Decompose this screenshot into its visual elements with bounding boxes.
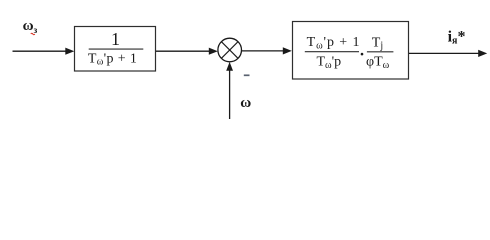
block W2: (Tω'p+1)/(Tω'p) · Tj/(φTω) <box>293 22 409 80</box>
svg-text:Tω'p + 1: Tω'p + 1 <box>307 35 361 51</box>
minus sign at feedback input <box>244 74 250 76</box>
svg-text:iя*: iя* <box>448 29 466 47</box>
block W1: 1/(Tω'p+1) <box>75 27 156 72</box>
svg-text:1: 1 <box>111 29 120 49</box>
svg-text:Tω'p + 1: Tω'p + 1 <box>88 51 137 67</box>
wire: block W1 to summing junction <box>156 50 210 52</box>
wire: input arrow into block W1 <box>13 50 67 52</box>
summing junction S1 <box>218 38 242 62</box>
wire: summing junction to block W2 <box>242 50 285 52</box>
wire: output arrow from block W2 <box>409 52 479 54</box>
spellcheck underline under з <box>31 33 35 35</box>
multiplication dot <box>361 53 364 56</box>
fraction bar W2b <box>367 51 394 53</box>
fraction bar W1 <box>89 48 144 50</box>
fraction bar W2a <box>305 51 359 53</box>
svg-text:ω: ω <box>240 95 251 111</box>
wire: feedback ω up into summing junction <box>229 70 231 119</box>
